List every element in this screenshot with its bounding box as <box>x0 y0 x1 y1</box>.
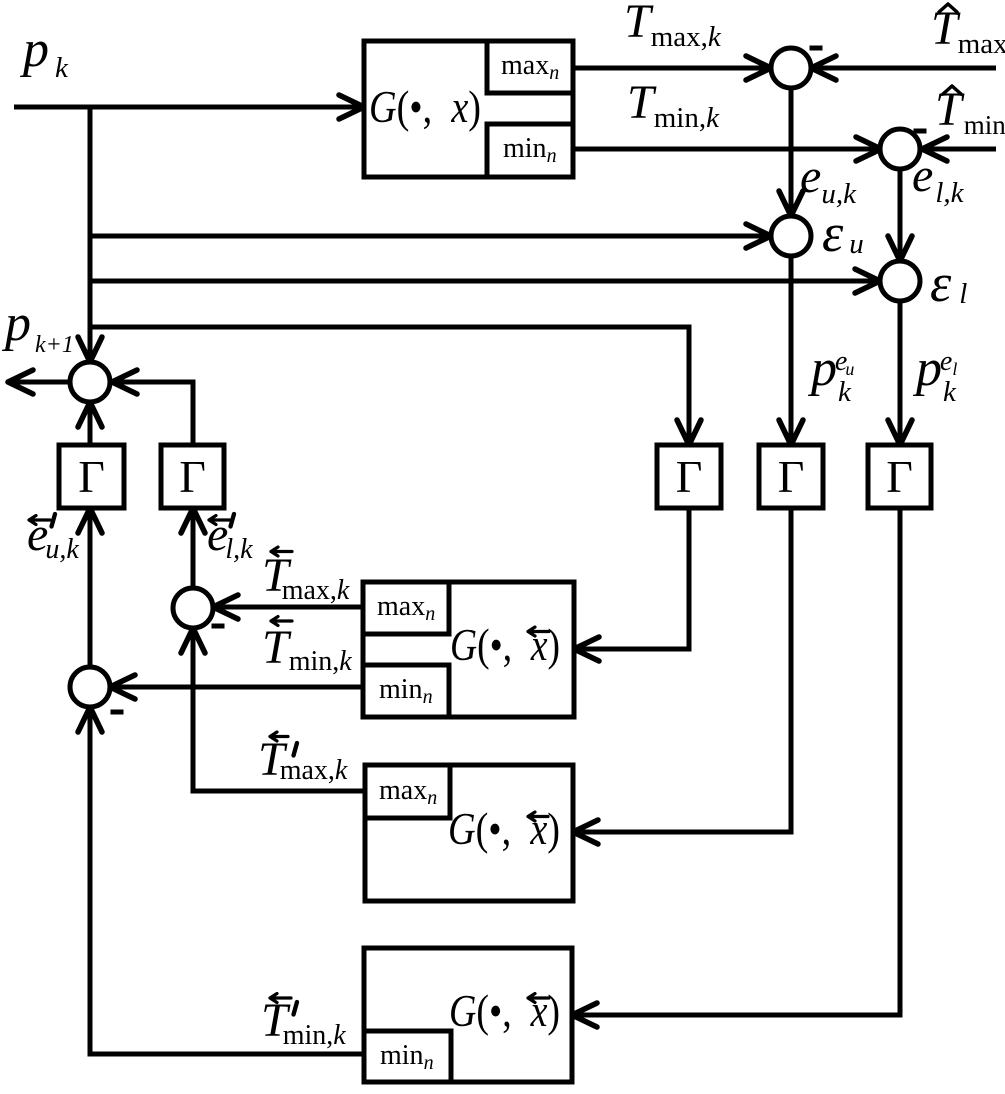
wire Tback'_max,k from block G3 to sum S1 <box>193 632 365 791</box>
arrowhead into Gamma5 top <box>888 420 912 445</box>
svg-text:Γ: Γ <box>676 451 703 502</box>
block Gamma2 <box>161 445 224 508</box>
wire p_k input to block G1 <box>14 105 360 110</box>
svg-text:G(•, x): G(•, x) <box>369 81 481 132</box>
prime of e'_l,k <box>231 514 235 527</box>
wire Gamma2 to sum S3 <box>116 382 193 445</box>
arrowhead into Gamma2 bottom <box>181 508 205 533</box>
accent arrow of Tback'_min,k <box>270 994 291 1003</box>
wire main left branch down from p_k <box>88 107 93 358</box>
arrowhead into sum S3 bottom <box>78 402 102 427</box>
accent arrow over x of G4 <box>528 994 549 1003</box>
wire p_k^eu from eps_u to Gamma4 <box>789 256 794 441</box>
wire p_k+1 output <box>12 380 70 385</box>
sum eps_l <box>880 261 920 301</box>
accent arrow over x of G2 <box>528 627 549 636</box>
arrowhead into sum S1 right <box>213 595 238 619</box>
sub-block max_n of G1 <box>487 41 573 93</box>
sum eps_u <box>771 216 811 256</box>
svg-text:Γ: Γ <box>179 451 206 502</box>
arrowhead into block G3 <box>573 820 598 844</box>
hat of That_max <box>939 4 957 12</box>
sum S2 (backward lower) <box>70 667 110 707</box>
minus sign of S1 <box>212 624 225 629</box>
wire sum S1 to Gamma2 <box>191 512 196 588</box>
sub-block min_n of G4 <box>364 1031 451 1082</box>
arrowhead into eps_l <box>855 269 880 293</box>
arrowhead into sum S2t <box>856 137 881 161</box>
wire Gamma3 to block G2 <box>578 508 689 649</box>
sum S3 (p_k+1 output) <box>70 362 110 402</box>
svg-text:G(•, x): G(•, x) <box>450 619 560 670</box>
accent arrow of Tback_min,k <box>271 617 292 626</box>
arrowhead into sum S1 bottom <box>181 628 205 653</box>
arrowhead into block G4 <box>572 1003 597 1027</box>
wire e_l,k from S2t to eps_l <box>898 169 903 257</box>
wire sum S2 to Gamma1 <box>88 512 93 667</box>
block Gamma1 <box>59 445 124 508</box>
wire e_u,k from S1t to eps_u <box>789 88 794 212</box>
sub-block max_n of G3 <box>365 765 450 818</box>
wire p_k+1 branch to Gamma3 <box>90 327 689 441</box>
block Gamma3 <box>657 445 721 508</box>
arrowhead into sum S2 bottom <box>78 707 102 732</box>
arrowhead into eps_u <box>746 224 771 248</box>
wire branch to eps_l <box>90 279 876 284</box>
wire T_max,k from max_n to sum S1t <box>573 66 767 71</box>
accent arrow over x of G3 <box>528 812 548 821</box>
wire Gamma5 to block G4 <box>576 508 900 1015</box>
wire Tback_max,k from block G2 to sum S1 <box>217 605 363 610</box>
arrowhead p_k+1 output <box>8 370 33 394</box>
arrowhead into sum S3 right <box>112 370 137 394</box>
wire Tback'_min,k from block G4 to sum S2 <box>90 711 364 1054</box>
sum S1 (backward upper) <box>173 588 213 628</box>
prime of Tback'_max,k <box>294 743 298 756</box>
block G3 G(.,x-back) prime-max <box>365 765 573 901</box>
wire Gamma1 to sum S3 <box>88 406 93 445</box>
block G4 G(.,x-back) prime-min <box>364 948 572 1082</box>
block Gamma5 <box>868 445 931 508</box>
sum S2t (lower error, minus That_min) <box>880 129 920 169</box>
arrowhead into Gamma1 bottom <box>78 508 102 533</box>
wire That_min input <box>926 147 996 152</box>
wire Tback_min,k from block G2 to sum S2 <box>114 685 363 690</box>
sub-block min_n of G2 <box>363 665 449 717</box>
minus sign of S1t <box>810 46 823 51</box>
arrowhead into Gamma3 top <box>677 420 701 445</box>
wire p_k^el from eps_l to Gamma5 <box>898 301 903 441</box>
arrowhead into block G1 <box>339 95 364 119</box>
hat of That_min <box>943 86 961 94</box>
svg-text:G(•, x): G(•, x) <box>449 985 560 1036</box>
prime of Tback'_min,k <box>294 1002 298 1015</box>
wire T_min,k from min_n to sum S2t <box>573 147 877 152</box>
minus sign of S2 <box>111 710 124 715</box>
svg-text:G(•, x): G(•, x) <box>448 803 560 854</box>
svg-text:Γ: Γ <box>78 451 105 502</box>
block G1 G(.,x) <box>364 41 573 177</box>
arrowhead into block G2 <box>574 637 599 661</box>
svg-text:Γ: Γ <box>778 451 805 502</box>
sub-block max_n of G2 <box>363 582 449 634</box>
wire That_max input <box>815 66 996 71</box>
wire Gamma4 to block G3 <box>577 508 791 832</box>
arrowhead into sum S3 top <box>78 337 102 362</box>
accent arrow of e'_u,k <box>29 516 50 525</box>
arrowhead That_min into S2t <box>922 137 947 161</box>
accent arrow of e'_l,k <box>209 516 230 525</box>
accent arrow of Tback'_max,k <box>270 732 288 741</box>
arrowhead into Gamma4 top <box>779 420 803 445</box>
arrowhead into sum S2 right <box>110 675 135 699</box>
wire branch to eps_u <box>90 234 767 239</box>
block Gamma4 <box>759 445 823 508</box>
arrowhead into sum S1t <box>746 56 771 80</box>
arrowhead into eps_l top <box>888 236 912 261</box>
accent arrow of Tback_max,k <box>271 547 292 556</box>
prime of e'_u,k <box>52 514 56 527</box>
sum S1t (upper error, minus That_max) <box>771 48 811 88</box>
arrowhead into eps_u top <box>779 191 803 216</box>
minus sign of S2t <box>914 129 927 134</box>
arrowhead That_max into S1t <box>811 56 836 80</box>
svg-text:Γ: Γ <box>886 451 913 502</box>
block G2 G(.,x-back) <box>363 582 574 717</box>
sub-block min_n of G1 <box>487 124 573 177</box>
